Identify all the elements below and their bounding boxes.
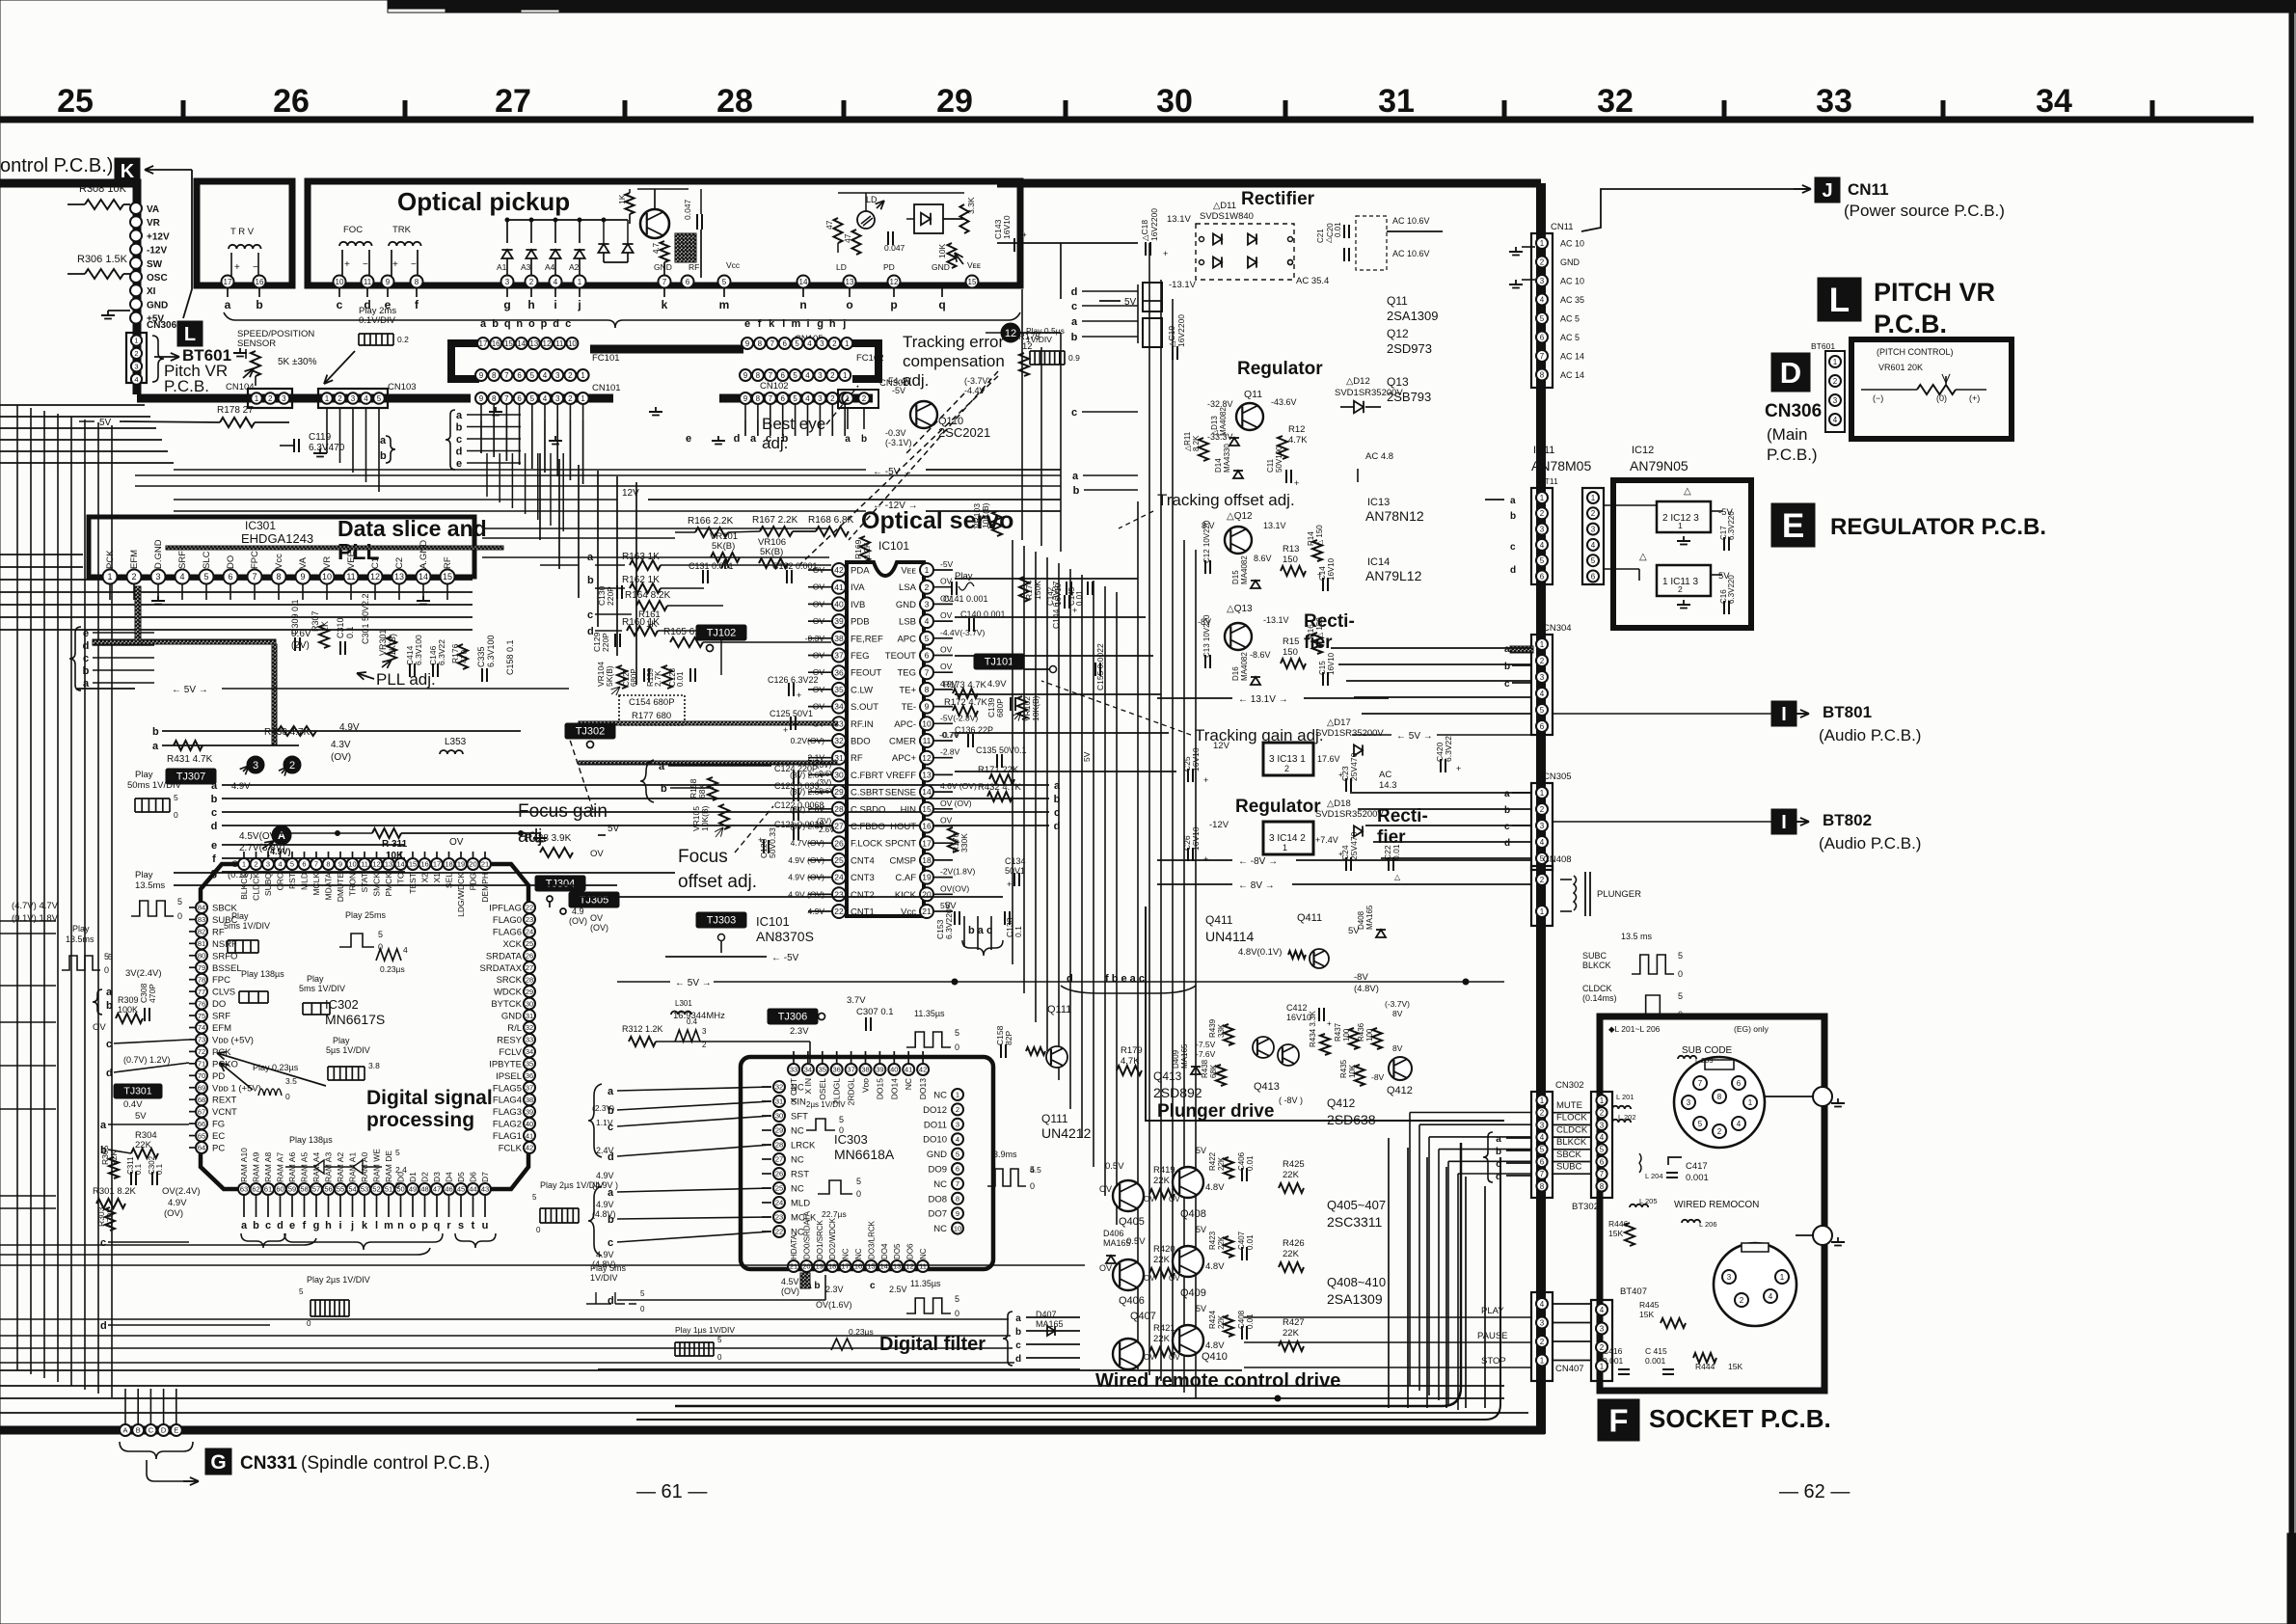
svg-text:36: 36 — [834, 667, 844, 677]
svg-text:22K: 22K — [1283, 1170, 1300, 1180]
svg-text:3: 3 — [134, 363, 138, 371]
thick bus to trunk — [997, 179, 1541, 188]
svg-text:I: I — [1781, 812, 1787, 833]
svg-text:8: 8 — [956, 1195, 959, 1204]
pickup bottom letters — [227, 288, 229, 297]
svg-text:KICK: KICK — [895, 890, 917, 901]
svg-text:16: 16 — [492, 339, 500, 348]
svg-text:GND: GND — [927, 1150, 947, 1160]
svg-text:41: 41 — [526, 1131, 533, 1140]
bottom connector circles A-E — [120, 1424, 131, 1436]
svg-text:+: + — [758, 835, 763, 845]
svg-text:1: 1 — [1780, 1273, 1785, 1282]
svg-text:42: 42 — [919, 1066, 927, 1074]
svg-text:c: c — [106, 1039, 112, 1050]
svg-text:2µs 1V/DIV: 2µs 1V/DIV — [806, 1100, 846, 1109]
svg-text:11: 11 — [919, 1262, 927, 1271]
svg-text:1: 1 — [843, 371, 848, 380]
svg-text:Regulator: Regulator — [1237, 359, 1323, 379]
svg-text:NC: NC — [933, 1179, 947, 1190]
svg-text:C131 0.001: C131 0.001 — [689, 561, 734, 571]
svg-text:1: 1 — [1540, 239, 1545, 248]
svg-text:D15: D15 — [1231, 570, 1240, 584]
IC13 regulator box — [1263, 743, 1313, 775]
connector BT302 — [1591, 1092, 1612, 1198]
svg-text:DO3/LRCK: DO3/LRCK — [867, 1220, 876, 1259]
svg-text:0.1: 0.1 — [345, 626, 355, 638]
svg-text:Play: Play — [333, 1036, 350, 1045]
svg-text:Q13: Q13 — [1387, 375, 1409, 389]
svg-text:C158 0.1: C158 0.1 — [505, 639, 515, 675]
svg-text:46: 46 — [445, 1185, 452, 1194]
svg-text:5V: 5V — [135, 1111, 147, 1122]
svg-text:2: 2 — [1540, 1338, 1545, 1346]
svg-text:△: △ — [1684, 486, 1691, 497]
svg-text:3: 3 — [266, 860, 270, 869]
svg-text:A: A — [122, 1426, 127, 1435]
svg-text:2: 2 — [1540, 657, 1545, 665]
svg-text:Play: Play — [135, 770, 153, 780]
svg-text:6: 6 — [302, 860, 306, 869]
svg-text:(-3.7V): (-3.7V) — [1385, 999, 1410, 1009]
svg-text:38: 38 — [526, 1096, 533, 1104]
svg-text:41: 41 — [905, 1066, 912, 1074]
svg-text:C309 0.1: C309 0.1 — [290, 599, 300, 635]
svg-text:a: a — [608, 1187, 614, 1199]
svg-text:+: + — [1317, 570, 1322, 579]
svg-text:21: 21 — [790, 1262, 797, 1271]
svg-text:Focus: Focus — [678, 847, 728, 867]
svg-text:69: 69 — [198, 1083, 205, 1092]
svg-text:4.7: 4.7 — [652, 242, 661, 254]
svg-text:FC102: FC102 — [856, 353, 884, 364]
transistor in pickup — [640, 209, 669, 238]
svg-text:b: b — [1504, 805, 1510, 816]
svg-text:Q405~407: Q405~407 — [1327, 1198, 1386, 1212]
svg-text:EC: EC — [212, 1131, 225, 1142]
svg-text:3.8: 3.8 — [368, 1061, 380, 1070]
tag E — [1771, 503, 1815, 547]
svg-text:5K(B): 5K(B) — [760, 547, 783, 557]
svg-text:3: 3 — [1833, 396, 1838, 405]
svg-text:-8V: -8V — [1354, 972, 1368, 983]
svg-text:e: e — [385, 298, 392, 311]
svg-text:0: 0 — [104, 965, 109, 975]
svg-text:67: 67 — [198, 1107, 205, 1116]
svg-text:offset adj.: offset adj. — [678, 872, 757, 892]
svg-text:AC 5: AC 5 — [1560, 314, 1580, 324]
svg-text:8: 8 — [326, 860, 330, 869]
transistor Q412 — [1389, 1057, 1412, 1080]
svg-text:(Spindle control P.C.B.): (Spindle control P.C.B.) — [301, 1453, 490, 1474]
svg-text:28: 28 — [716, 83, 753, 120]
svg-text:59: 59 — [288, 1185, 296, 1194]
svg-text:A2: A2 — [569, 262, 580, 272]
svg-text:15: 15 — [922, 804, 932, 814]
svg-text:-2V(1.8V): -2V(1.8V) — [940, 867, 976, 877]
svg-text:5: 5 — [856, 1177, 861, 1186]
svg-text:17: 17 — [433, 860, 441, 869]
plunger drive box outline — [1146, 907, 1504, 1121]
svg-text:5: 5 — [177, 897, 182, 907]
svg-text:2: 2 — [529, 278, 534, 286]
svg-text:o: o — [528, 318, 535, 330]
svg-text:NC: NC — [919, 1248, 928, 1259]
svg-text:56: 56 — [324, 1185, 332, 1194]
svg-text:NC: NC — [791, 1184, 804, 1195]
svg-text:FEG: FEG — [851, 651, 870, 662]
stub a b under CN301 — [847, 408, 849, 429]
svg-text:TE-: TE- — [902, 702, 916, 713]
resistors 47 47 — [834, 218, 843, 243]
IC11 box — [1657, 565, 1711, 596]
svg-text:DO10: DO10 — [923, 1135, 947, 1146]
svg-text:5: 5 — [1540, 706, 1545, 715]
svg-text:82: 82 — [198, 928, 205, 936]
svg-text:10: 10 — [954, 1224, 961, 1232]
svg-text:33: 33 — [526, 1036, 533, 1044]
connector column pins VA..+5V (CN306 area) — [130, 203, 142, 214]
svg-text:i: i — [554, 298, 556, 311]
svg-text:42: 42 — [834, 565, 844, 575]
svg-text:2: 2 — [289, 760, 295, 771]
svg-text:16: 16 — [922, 822, 932, 831]
svg-text:25: 25 — [834, 855, 844, 865]
svg-text:13: 13 — [529, 339, 538, 348]
cap C417 0.001 — [1668, 1157, 1682, 1165]
svg-text:OV: OV — [1099, 1184, 1112, 1194]
svg-text:RF: RF — [851, 753, 863, 764]
svg-text:GND: GND — [501, 1012, 522, 1022]
svg-text:CN331: CN331 — [240, 1453, 298, 1474]
svg-text:CN408: CN408 — [1543, 854, 1572, 865]
svg-text:CNT4: CNT4 — [851, 855, 875, 866]
svg-text:39: 39 — [876, 1066, 883, 1074]
svg-text:CN305: CN305 — [1543, 771, 1572, 782]
svg-text:30: 30 — [526, 999, 533, 1008]
svg-text:← -8V →: ← -8V → — [1238, 856, 1278, 867]
svg-text:R439: R439 — [1208, 1018, 1217, 1038]
svg-text:OV: OV — [1169, 1353, 1180, 1362]
svg-text:NC: NC — [791, 1155, 804, 1166]
svg-text:31: 31 — [526, 1012, 533, 1020]
svg-text:R309: R309 — [118, 995, 139, 1005]
svg-text:32: 32 — [775, 1083, 783, 1092]
svg-text:c: c — [1504, 822, 1510, 832]
svg-text:+: + — [1072, 606, 1077, 615]
svg-text:SLC: SLC — [202, 551, 212, 569]
svg-text:D1: D1 — [408, 1172, 418, 1182]
trunk vertical thick line — [1536, 183, 1546, 1434]
svg-text:17: 17 — [479, 339, 488, 348]
svg-text:a: a — [152, 741, 159, 752]
svg-text:39: 39 — [834, 616, 844, 626]
svg-text:34: 34 — [804, 1066, 812, 1074]
svg-text:39: 39 — [526, 1107, 533, 1116]
svg-text:27: 27 — [526, 963, 533, 972]
svg-text:15: 15 — [867, 1262, 875, 1271]
svg-text:◆L 201~L 206: ◆L 201~L 206 — [1608, 1024, 1661, 1034]
svg-text:e: e — [289, 1220, 295, 1232]
svg-text:b: b — [83, 665, 90, 677]
svg-text:4.9V: 4.9V — [596, 1200, 614, 1209]
svg-text:22: 22 — [834, 907, 844, 916]
tag J — [1815, 177, 1840, 203]
svg-text:3V(2.4V): 3V(2.4V) — [125, 968, 162, 979]
svg-text:−: − — [411, 259, 417, 270]
svg-text:22K: 22K — [1153, 1334, 1171, 1344]
svg-text:2: 2 — [1540, 876, 1545, 884]
svg-text:4: 4 — [1540, 1133, 1545, 1142]
svg-text:LSB: LSB — [899, 617, 916, 628]
svg-text:3.3K: 3.3K — [966, 197, 976, 214]
svg-text:−: − — [253, 262, 258, 273]
svg-text:2.3V: 2.3V — [790, 1026, 809, 1037]
svg-text:(Audio P.C.B.): (Audio P.C.B.) — [1819, 726, 1921, 744]
svg-text:IC14: IC14 — [1367, 556, 1390, 568]
svg-text:d: d — [100, 1320, 107, 1332]
svg-text:+: + — [1338, 850, 1343, 858]
svg-text:FCLK: FCLK — [499, 1144, 523, 1154]
svg-text:-7.5V: -7.5V — [1196, 1040, 1216, 1049]
IC302 left pins 84-64 — [196, 902, 207, 913]
svg-text:R444: R444 — [1695, 1362, 1715, 1371]
svg-text:△R11: △R11 — [1183, 431, 1192, 451]
svg-text:3.7V: 3.7V — [847, 995, 866, 1006]
coil L206 — [1682, 1220, 1700, 1223]
svg-text:28: 28 — [526, 975, 533, 984]
svg-text:9: 9 — [479, 371, 484, 380]
svg-text:e: e — [211, 840, 217, 852]
svg-text:65: 65 — [198, 1131, 205, 1140]
svg-text:I: I — [1781, 704, 1787, 725]
svg-text:△C19: △C19 — [1167, 326, 1176, 347]
svg-text:PLUNGER: PLUNGER — [1597, 889, 1641, 900]
svg-text:8: 8 — [276, 572, 281, 582]
svg-text:RESY: RESY — [497, 1035, 523, 1045]
svg-text:q: q — [938, 298, 945, 311]
svg-text:e: e — [686, 433, 691, 445]
svg-text:X1: X1 — [432, 873, 442, 883]
svg-text:6: 6 — [686, 278, 690, 286]
svg-text:DO: DO — [212, 999, 226, 1010]
svg-text:25V470: 25V470 — [1349, 831, 1359, 860]
svg-text:77: 77 — [198, 988, 205, 996]
svg-text:10K(B): 10K(B) — [700, 805, 710, 831]
svg-text:-4.4V(-3.7V): -4.4V(-3.7V) — [940, 628, 985, 637]
pin row CN105 17-10 — [477, 338, 489, 349]
svg-text:AN78N12: AN78N12 — [1365, 508, 1424, 524]
svg-text:10: 10 — [568, 339, 577, 348]
svg-text:4: 4 — [1769, 1292, 1773, 1301]
svg-text:2: 2 — [1600, 1343, 1605, 1352]
svg-text:2SD892: 2SD892 — [1153, 1085, 1202, 1100]
transistor Q413 pair — [1236, 1025, 1313, 1077]
svg-text:6: 6 — [925, 651, 930, 661]
svg-text:3: 3 — [1540, 673, 1545, 682]
svg-text:1: 1 — [107, 572, 112, 582]
svg-text:P.C.B.: P.C.B. — [1874, 310, 1947, 338]
svg-text:-5V: -5V — [892, 386, 905, 395]
halftone EFM trace — [93, 639, 143, 645]
tag TJ102 — [696, 625, 746, 640]
svg-text:7: 7 — [769, 371, 773, 380]
svg-text:5: 5 — [174, 793, 178, 802]
svg-text:IC101: IC101 — [756, 914, 790, 929]
svg-text:2: 2 — [568, 371, 573, 380]
svg-text:c: c — [1071, 407, 1077, 419]
svg-text:18: 18 — [828, 1262, 836, 1271]
svg-text:RF.IN: RF.IN — [851, 719, 874, 730]
svg-text:27: 27 — [495, 83, 531, 120]
svg-text:R420: R420 — [1153, 1244, 1175, 1255]
svg-text:p: p — [421, 1220, 428, 1232]
svg-text:1: 1 — [1540, 789, 1545, 798]
svg-text:d: d — [1504, 838, 1510, 849]
svg-text:12: 12 — [1005, 328, 1016, 339]
svg-text:f b e a c: f b e a c — [1105, 973, 1145, 985]
svg-text:4: 4 — [1600, 1306, 1605, 1314]
svg-text:3: 3 — [505, 278, 510, 286]
svg-text:BLKCK: BLKCK — [1556, 1137, 1587, 1148]
svg-text:32: 32 — [834, 736, 844, 745]
transistor Q406 parts — [1113, 1259, 1144, 1290]
svg-text:c: c — [456, 434, 462, 446]
svg-text:6.3V100: 6.3V100 — [414, 635, 423, 665]
svg-text:-43.6V: -43.6V — [1271, 397, 1297, 407]
svg-text:AC 35: AC 35 — [1560, 295, 1584, 305]
svg-text:8.2K: 8.2K — [1192, 435, 1201, 451]
svg-text:1: 1 — [1540, 907, 1545, 916]
svg-text:OV: OV — [1144, 1353, 1155, 1362]
svg-text:R16: R16 — [1307, 624, 1315, 638]
svg-text:△Q12: △Q12 — [1227, 511, 1253, 522]
svg-text:RAM A7: RAM A7 — [276, 1152, 285, 1182]
svg-text:17: 17 — [841, 1262, 849, 1271]
svg-text:330K: 330K — [959, 833, 969, 853]
svg-text:IPFLAG: IPFLAG — [489, 904, 522, 914]
svg-text:j: j — [350, 1220, 354, 1232]
svg-text:← 5V →: ← 5V → — [675, 978, 712, 988]
svg-text:20: 20 — [469, 860, 476, 869]
svg-text:APC-: APC- — [894, 719, 916, 730]
svg-text:HOUT: HOUT — [890, 822, 916, 832]
svg-text:2: 2 — [1600, 1109, 1605, 1118]
svg-text:16: 16 — [420, 860, 428, 869]
svg-text:9: 9 — [338, 860, 342, 869]
svg-text:47: 47 — [843, 233, 852, 243]
svg-text:← 13.1V →: ← 13.1V → — [1238, 694, 1288, 705]
svg-text:EHDGA1243: EHDGA1243 — [241, 531, 313, 546]
svg-text:0.01: 0.01 — [1334, 222, 1342, 237]
mid horizontals band — [482, 528, 829, 529]
IC101 right pins 1-21 — [920, 563, 933, 577]
svg-text:11.35µs: 11.35µs — [910, 1279, 941, 1288]
svg-text:△D13: △D13 — [1210, 416, 1219, 436]
svg-text:A4: A4 — [545, 262, 555, 272]
svg-text:AN78M05: AN78M05 — [1531, 458, 1591, 474]
svg-text:a: a — [241, 1220, 248, 1232]
IC303 bottom pins 21-11 — [788, 1260, 799, 1272]
svg-text:6.3V220: 6.3V220 — [1727, 511, 1736, 540]
svg-text:16.9344MHz: 16.9344MHz — [673, 1011, 725, 1021]
svg-text:RAM A8: RAM A8 — [263, 1152, 273, 1182]
pin row CN105 right 9-1 — [742, 338, 753, 349]
svg-text:R14: R14 — [1307, 531, 1315, 546]
svg-text:24: 24 — [775, 1199, 783, 1207]
svg-text:25: 25 — [775, 1184, 783, 1193]
svg-text:OV: OV — [940, 645, 953, 655]
svg-text:APC+: APC+ — [892, 753, 917, 764]
svg-text:-2.8V: -2.8V — [940, 747, 960, 757]
svg-text:57: 57 — [312, 1185, 320, 1194]
svg-text:Play: Play — [231, 911, 249, 921]
svg-text:Vcc: Vcc — [726, 260, 741, 270]
svg-text:R419: R419 — [1153, 1165, 1175, 1176]
svg-text:FLAG1: FLAG1 — [493, 1131, 522, 1142]
svg-text:g: g — [503, 298, 510, 311]
svg-text:Q408: Q408 — [1180, 1208, 1206, 1220]
svg-text:c: c — [337, 298, 343, 311]
svg-text:0.1: 0.1 — [1013, 926, 1023, 937]
svg-text:60: 60 — [276, 1185, 284, 1194]
svg-text:2: 2 — [1540, 805, 1545, 814]
svg-text:d: d — [608, 1295, 614, 1307]
svg-text:R13: R13 — [1283, 544, 1299, 555]
svg-text:(4.9V): (4.9V) — [267, 847, 291, 856]
svg-text:TJ304: TJ304 — [546, 879, 576, 890]
TJ305 stubs — [547, 896, 553, 902]
svg-text:o: o — [410, 1220, 417, 1232]
svg-text:9: 9 — [743, 371, 748, 380]
svg-text:C12 10V220: C12 10V220 — [1202, 520, 1211, 563]
svg-text:C119: C119 — [309, 432, 332, 443]
svg-text:(-3.7V): (-3.7V) — [964, 376, 991, 386]
left wire verticals — [16, 405, 18, 1370]
svg-text:D16: D16 — [1231, 666, 1240, 681]
svg-text:DEMPH: DEMPH — [480, 873, 490, 903]
svg-text:0.4: 0.4 — [687, 1017, 698, 1026]
svg-text:5K(B): 5K(B) — [712, 541, 735, 552]
svg-text:5V: 5V — [608, 824, 620, 834]
svg-text:79: 79 — [198, 963, 205, 972]
svg-text:4: 4 — [1833, 416, 1838, 424]
svg-text:3: 3 — [253, 760, 258, 771]
left wire bundle horizontals — [0, 404, 145, 406]
halftone RF trace — [579, 761, 837, 765]
horizontal connectors CN305 wires left — [1350, 792, 1531, 794]
svg-text:TJ303: TJ303 — [707, 915, 737, 927]
svg-text:C2: C2 — [394, 557, 405, 569]
svg-text:RF: RF — [443, 556, 453, 569]
svg-text:5: 5 — [299, 1287, 304, 1296]
svg-text:GND: GND — [147, 300, 168, 311]
svg-text:15: 15 — [409, 860, 417, 869]
svg-text:LRCK: LRCK — [791, 1141, 816, 1151]
edge connector boxes — [1143, 283, 1162, 311]
svg-text:b: b — [1510, 511, 1516, 522]
svg-text:△D18: △D18 — [1327, 798, 1351, 809]
halftone patch — [675, 233, 696, 262]
cap C154 680P dotted box — [619, 695, 685, 725]
svg-text:-0.7V: -0.7V — [939, 730, 959, 740]
svg-text:VCNT: VCNT — [212, 1107, 237, 1118]
svg-text:CN102: CN102 — [760, 381, 789, 392]
svg-text:6: 6 — [956, 1165, 959, 1174]
svg-text:20: 20 — [802, 1262, 810, 1271]
svg-text:PC: PC — [212, 1144, 225, 1154]
svg-text:c: c — [1510, 542, 1516, 553]
